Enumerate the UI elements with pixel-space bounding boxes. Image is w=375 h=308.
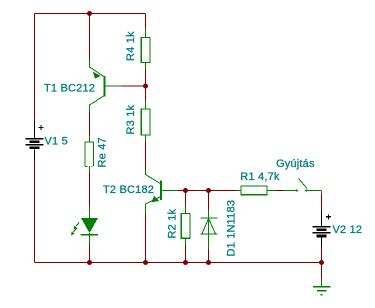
svg-text:V2 12: V2 12	[333, 224, 363, 236]
svg-text:R2 1k: R2 1k	[166, 208, 178, 238]
svg-text:T1 BC212: T1 BC212	[44, 83, 95, 95]
diode D1 1N1183	[201, 210, 218, 249]
wire T2 base run	[178, 190, 237, 192]
svg-text:V1 5: V1 5	[45, 136, 68, 148]
svg-text:R1 4,7k: R1 4,7k	[240, 171, 280, 183]
svg-text:T2 BC182: T2 BC182	[103, 184, 154, 196]
wire Re to LED	[89, 172, 91, 207]
svg-text:R4 1k: R4 1k	[125, 31, 137, 61]
battery V2 12	[313, 211, 331, 246]
node junction T2 emitter / bottom rail	[143, 260, 148, 265]
wire T1 collector to Re	[89, 112, 91, 136]
node junction base / R2	[183, 188, 188, 193]
transistor Q T2 BC182 (NPN)	[146, 170, 179, 213]
svg-text:Re 47: Re 47	[96, 137, 108, 167]
wire LED to bottom rail	[89, 244, 91, 263]
wire top rail corner to R4	[145, 14, 147, 30]
battery V1	[26, 121, 44, 160]
wire top rail	[35, 13, 146, 15]
resistor R1 4,7k	[237, 186, 275, 195]
wire R2 top	[185, 191, 187, 207]
svg-text:Gyújtás: Gyújtás	[276, 158, 315, 170]
wire R4 to node base T1	[145, 70, 147, 101]
LED D (green)	[71, 207, 98, 244]
ground	[313, 279, 331, 295]
wire R2 bottom to rail	[185, 245, 187, 263]
node junction T1 base / R4 / R3	[143, 84, 148, 89]
wire T1 emitter from top rail	[89, 14, 91, 61]
wire R3 to T2 collector	[145, 142, 147, 170]
node junction V2 / bottom rail / ground	[319, 260, 324, 265]
resistor R2 1k	[181, 207, 190, 246]
wire T2 emitter to bottom rail	[145, 213, 147, 262]
wire R1 to switch	[275, 190, 284, 192]
wire left rail upper (to V1 +)	[34, 14, 36, 122]
wire D1 bottom to rail	[208, 249, 210, 263]
node junction R2 / bottom rail	[183, 260, 188, 265]
resistor R3 1k	[141, 101, 150, 142]
node junction top rail / T1 emitter	[87, 11, 92, 16]
wire T1 base to node	[122, 85, 146, 87]
resistor Re 47	[85, 136, 94, 172]
transistor Q T1 BC212 (PNP)	[90, 60, 122, 112]
switch S (Gyújtás)	[284, 179, 322, 195]
node junction LED / bottom rail	[87, 260, 92, 265]
svg-text:R3 1k: R3 1k	[125, 104, 137, 134]
resistor R4 1k	[141, 29, 150, 70]
wire D1 top	[208, 191, 210, 211]
wire switch to V2	[321, 194, 323, 211]
wire V2 to bottom rail / ground	[321, 246, 323, 279]
svg-text:D1 1N1183: D1 1N1183	[226, 200, 238, 257]
node junction D1 / bottom rail	[206, 260, 211, 265]
wire bottom rail	[35, 262, 322, 264]
wire left rail lower (V1 - to bottom rail)	[34, 160, 36, 263]
node junction base / D1	[206, 188, 211, 193]
